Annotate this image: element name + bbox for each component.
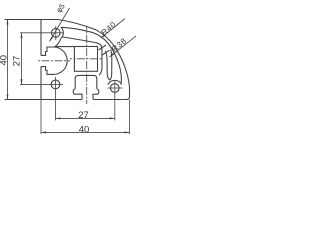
svg-text:40: 40 — [0, 55, 10, 66]
profile left edge lower segment — [40, 67, 42, 100]
boss to slot fillet — [55, 38, 75, 46]
left T-slot cavity — [41, 47, 67, 74]
center line left slot — [37, 60, 71, 62]
dim line 27 horizontal — [56, 117, 115, 119]
crosshair bl hole vertical / ext dim — [55, 77, 57, 120]
svg-text:R38: R38 — [110, 36, 129, 54]
center line bottom slot / square vertical — [86, 26, 88, 104]
inner shell wall R38 — [62, 27, 122, 83]
central square hole — [74, 47, 97, 72]
web line W2 — [102, 50, 110, 55]
profile bottom edge left segment with extension line — [5, 99, 83, 101]
ext line right below — [129, 100, 131, 135]
ext line left edge below — [40, 100, 42, 135]
profile left edge upper segment — [40, 20, 42, 56]
finger pocket wall — [105, 50, 112, 81]
crosshair br hole vertical / ext dim — [114, 81, 116, 120]
profile outer R40 arc — [58, 20, 130, 100]
hole bottom-left phi5 — [51, 80, 60, 89]
leader R38 — [110, 36, 137, 57]
svg-text:27: 27 — [78, 110, 89, 121]
crosshair top hole horizontal / ext 27 — [20, 32, 64, 34]
bottom T-slot cavity — [73, 75, 98, 99]
svg-text:27: 27 — [12, 56, 23, 67]
crosshair top hole vertical — [55, 26, 57, 40]
hole bottom-right phi5 — [110, 84, 119, 93]
crosshair br hole horizontal — [108, 87, 123, 89]
svg-text:R40: R40 — [100, 20, 119, 38]
boss arc around bottom-right hole — [108, 80, 122, 84]
dim line 27 vertical — [21, 33, 23, 85]
svg-text:φ5: φ5 — [54, 2, 67, 15]
web line W1 — [99, 45, 107, 50]
web upper plate line — [63, 37, 103, 75]
hole top phi5 — [51, 28, 60, 37]
boss arc around top hole — [61, 27, 63, 38]
leader R40 — [101, 19, 125, 39]
profile bottom edge right segment — [93, 99, 127, 101]
leader phi5 — [50, 8, 70, 42]
crosshair bl hole horizontal / ext 27 — [20, 83, 63, 85]
dim line 40 horizontal — [41, 131, 130, 133]
profile outer top edge with extension line — [5, 19, 59, 21]
svg-text:40: 40 — [79, 125, 90, 136]
center line square horizontal — [70, 58, 103, 60]
dim line 40 vertical — [7, 20, 9, 100]
